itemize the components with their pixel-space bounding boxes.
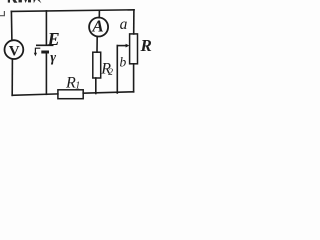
svg-text:E: E [47, 29, 60, 49]
svg-text:1: 1 [75, 80, 80, 91]
svg-text:A: A [91, 16, 103, 35]
svg-text:V: V [9, 44, 20, 60]
svg-text:R: R [140, 36, 152, 55]
svg-text:2: 2 [108, 68, 113, 78]
svg-text:a: a [120, 16, 128, 33]
svg-text:b: b [120, 54, 127, 69]
svg-text:γ: γ [50, 51, 56, 66]
